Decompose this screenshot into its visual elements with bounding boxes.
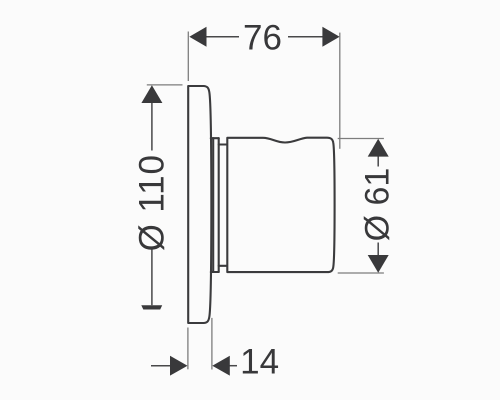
svg-text:14: 14: [240, 343, 279, 382]
svg-text:Ø 61: Ø 61: [359, 168, 397, 242]
svg-text:Ø 110: Ø 110: [132, 154, 171, 251]
svg-text:76: 76: [243, 19, 282, 58]
